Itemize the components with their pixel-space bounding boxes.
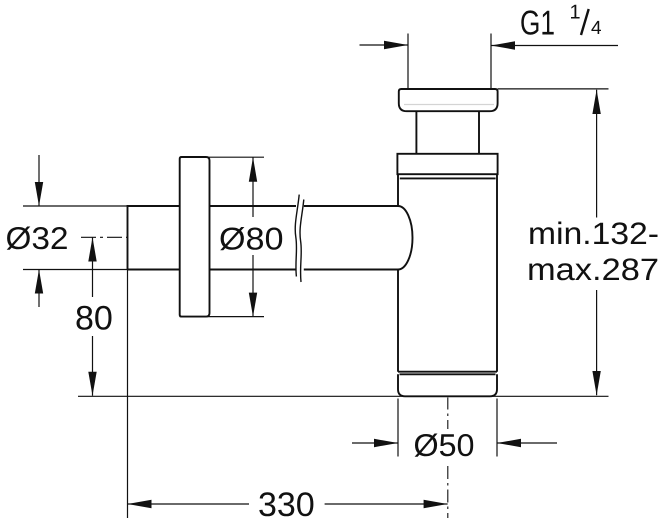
330 dimension line segments	[128, 503, 448, 505]
330 left extension line	[127, 270, 129, 519]
Ø80 bottom extension line	[180, 316, 264, 318]
label diameter 50	[415, 434, 474, 457]
label fraction slash	[581, 9, 589, 35]
arrowhead 80 bottom pointing down	[88, 372, 96, 396]
trap top flange (cap nut)	[399, 89, 498, 111]
G1 1/4 extension lines	[408, 34, 491, 89]
label G1	[521, 10, 553, 34]
arrowhead Ø32 bottom pointing up	[35, 270, 43, 294]
min-max vertical dimension line	[596, 90, 598, 396]
min-max top extension line	[498, 88, 609, 90]
G1 1/4 left dimension line	[360, 44, 409, 46]
label 80	[77, 306, 112, 330]
arrowhead Ø50 right pointing left	[497, 439, 521, 447]
pipe break mark left wavy line	[295, 195, 299, 277]
label max.287	[529, 258, 657, 280]
80 dimension line segments	[92, 237, 94, 395]
wall flange disc Ø80	[180, 157, 210, 317]
label diameter 32	[7, 227, 67, 250]
body bottom joint lines	[398, 372, 497, 375]
flange inner highlight line	[404, 104, 494, 106]
arrowhead Ø80 top pointing up	[249, 157, 257, 182]
arrowhead G1 right pointing left	[491, 41, 515, 49]
arrowhead G1 left pointing right	[384, 41, 408, 49]
trap cup rim under nut	[400, 177, 496, 179]
label subscript 4	[591, 21, 601, 34]
pipe end bulge into trap body	[398, 206, 413, 270]
Ø50 extension lines	[398, 399, 497, 457]
arrowhead min-max bottom pointing down	[592, 371, 600, 395]
label diameter 80	[220, 227, 282, 250]
Ø50 dimension line segments	[352, 442, 557, 444]
arrowhead 330 right pointing right	[424, 500, 448, 508]
neck between flange and nut	[416, 111, 479, 154]
inlet pipe Ø32 horizontal tube	[128, 206, 399, 270]
bottom cap	[398, 374, 497, 396]
arrowhead Ø32 top pointing down	[35, 182, 43, 206]
bottom datum extension line	[78, 395, 609, 397]
pipe centerline dash-dot	[81, 236, 128, 238]
G1 1/4 right dimension line	[491, 45, 618, 47]
pipe break mark right wavy line	[300, 200, 304, 283]
label 330	[259, 492, 313, 516]
trap centerline dash-dot lower segment	[447, 466, 449, 518]
Ø32 dimension line segments	[38, 155, 40, 307]
Ø80 dimension line segments	[252, 157, 254, 316]
trap centerline dash-dot upper segment	[447, 398, 449, 430]
trap body sides	[398, 174, 497, 372]
arrowhead Ø80 bottom pointing down	[249, 293, 257, 317]
Ø80 top extension line	[180, 156, 264, 158]
label min.132-	[530, 222, 657, 245]
union nut	[397, 154, 497, 174]
label superscript 1	[571, 5, 580, 19]
Ø32 extension lines	[23, 206, 128, 270]
arrowhead 330 left pointing left	[128, 500, 152, 508]
arrowhead min-max top pointing up	[592, 90, 600, 114]
arrowhead 80 top pointing up	[88, 237, 96, 261]
arrowhead Ø50 left pointing right	[374, 439, 398, 447]
